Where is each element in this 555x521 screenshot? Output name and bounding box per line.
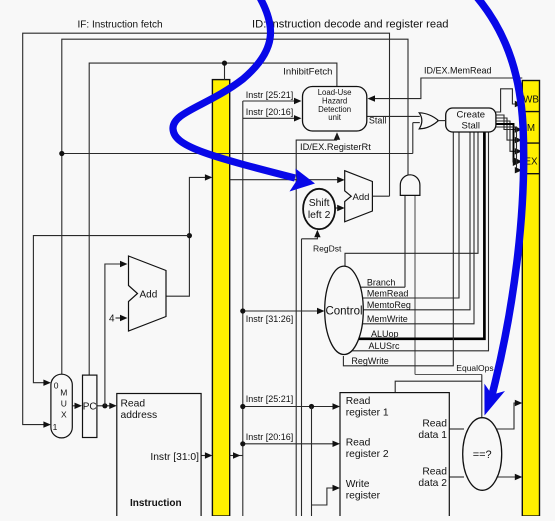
arrowhead Read address [109,403,117,409]
wire branch Add output [372,195,389,197]
svg-text:data 1: data 1 [418,430,447,441]
wire Branch [344,286,405,288]
arrowhead up into Shift left 2 [314,230,320,238]
svg-text:ID/EX.MemRead: ID/EX.MemRead [424,66,492,76]
wire Instr[20:16] to hazard [243,117,296,119]
svg-text:PC: PC [83,402,97,413]
arrowhead EX3 [515,167,523,173]
wire MemtoReg [344,132,470,310]
wire ID/EX.MemRead [372,78,522,99]
arrowhead EX1 [515,148,523,154]
wire Stall [367,115,420,117]
junction RegisterRt on PCSrc vertical [59,151,64,156]
wire PC+4 to MUX 0 [33,236,189,383]
arrowhead ==? out top [515,400,523,406]
svg-text:ALUSrc: ALUSrc [369,341,401,351]
svg-text:Instr [25:21]: Instr [25:21] [246,90,294,100]
svg-text:X: X [61,410,67,420]
svg-text:4: 4 [109,314,115,325]
svg-text:Read: Read [422,419,447,430]
MUX [51,374,72,438]
svg-text:MemtoReg: MemtoReg [367,300,411,310]
svg-text:==?: ==? [473,449,492,461]
junction PC+4 branch [187,233,192,238]
svg-text:U: U [61,399,67,409]
junction PC output [102,403,107,408]
svg-text:unit: unit [328,113,341,122]
arrowhead WB [515,101,523,107]
svg-text:data 2: data 2 [418,478,447,489]
wire shift to Add [335,207,339,209]
arrowhead Instr25-21 hazard [294,98,302,104]
svg-text:Instr [20:16]: Instr [20:16] [246,107,294,117]
svg-text:RegDst: RegDst [313,243,342,253]
comparator ==? [463,418,502,491]
arrowhead Read register 1 [333,403,341,409]
wire PC out to Read address [97,405,111,407]
svg-text:register 1: register 1 [346,408,389,419]
wire stall bundle 6 [496,127,517,170]
svg-text:Instr [25:21]: Instr [25:21] [246,394,294,404]
svg-text:Instr [31:0]: Instr [31:0] [150,452,199,463]
svg-text:RegWrite: RegWrite [351,356,388,366]
wire PCSrc feedback (AND gate output to MUX select) [62,39,408,374]
svg-text:Stall: Stall [369,116,387,126]
wire MemRead [344,132,459,298]
svg-text:Instruction: Instruction [130,498,182,509]
wire branch-target feedback [23,33,390,424]
wire AND left input (Branch) [404,196,406,288]
arrowhead next-PC into IF/ID [205,174,213,180]
ID/EX pipeline register [522,81,539,517]
arrowhead Instr bus [233,452,241,458]
svg-text:address: address [121,410,158,421]
junction Instr25-21 [240,404,245,409]
svg-text:Read: Read [346,438,371,449]
svg-text:Add: Add [353,192,370,203]
wire 4 into Add [116,317,122,319]
svg-text:left 2: left 2 [308,210,331,221]
arrowhead ==? out bottom [515,474,523,480]
arrowhead Instr31:0 into IF/ID [205,452,213,458]
svg-text:register 2: register 2 [346,449,389,460]
wire riser to OR [412,123,414,154]
svg-text:ID/EX.RegisterRt: ID/EX.RegisterRt [300,142,371,152]
wire bus vertical c [311,407,313,517]
arrowhead 4 input [120,315,128,321]
wire MUX to PC [72,405,76,407]
PC register [83,375,97,437]
svg-text:0: 0 [54,381,59,391]
wire stall bundle 3 [496,118,517,140]
svg-text:1: 1 [53,422,58,432]
svg-text:Stall: Stall [462,121,480,132]
wire InhibitFetch drop to IF/ID [224,63,226,80]
wire hazard bottom input [296,140,337,516]
arrowhead write register [333,485,341,491]
svg-text:Add: Add [140,290,158,301]
wire OR lower input riser [413,122,420,124]
Shift left 2 [303,189,335,229]
svg-text:Read: Read [422,467,447,478]
svg-text:Control: Control [325,306,362,318]
svg-text:Instr [20:16]: Instr [20:16] [246,432,294,442]
wire bus vertical b [301,239,303,516]
wire ==? top riser [481,375,483,419]
wire stall bundle 2 [496,115,517,130]
wire stall bundle 4 [496,121,517,151]
junction Instr20-16 [240,441,245,446]
AND gate [400,175,420,196]
wire RegWrite [343,132,453,366]
arrowhead into Control [317,308,325,314]
svg-text:Create: Create [457,110,486,121]
wire PC value to branch Add [230,179,339,181]
wire ALUSrc [344,132,489,351]
adder Add (PC+4) [129,256,167,331]
wire PC+4 riser [105,264,121,406]
svg-text:EqualOps: EqualOps [456,363,493,373]
wire stall bundle 5 thick [496,124,515,162]
svg-text:MemWrite: MemWrite [367,314,408,324]
junction Instr31-26 [240,308,245,313]
wire Add out loop [166,177,206,296]
junction Instr25-21 b [309,404,314,409]
wire Instr riser [242,101,244,516]
svg-text:InhibitFetch: InhibitFetch [283,66,332,77]
svg-text:IF: Instruction fetch: IF: Instruction fetch [78,20,163,31]
svg-text:Branch: Branch [367,277,396,287]
Control unit [325,266,364,354]
wire EqualOps to reg-file [395,381,482,392]
arrowhead Instr20-16 hazard [294,115,302,121]
svg-text:Read: Read [346,396,371,407]
wire into Shift left 2 [302,231,318,239]
wire Equal to AND [415,374,482,376]
wire OR to CreateStall [437,120,446,122]
svg-text:Instr [31:26]: Instr [31:26] [246,314,294,324]
svg-text:M: M [60,388,67,398]
wire ==? out bottom [496,476,517,478]
wire read data 2 to ==? [449,476,464,478]
IF/ID pipeline register [212,80,229,516]
arrowhead EX2 thick [513,157,523,166]
svg-text:ALUop: ALUop [371,329,399,339]
wire hazard arrow stub [336,134,338,140]
wire read data 1 to ==? [449,428,464,430]
wire Instr[31:0] out of IF/ID [230,455,243,457]
OR gate [419,113,438,129]
wire AND right input (Equal) [414,196,416,375]
arrowhead branch Add top [337,177,345,183]
adder Add (branch target) [345,171,373,222]
svg-text:register: register [346,491,381,502]
hazard detection unit U1 [303,87,367,132]
svg-text:WB: WB [523,95,539,106]
junction InhibitFetch/IF-ID [222,61,227,66]
wire InhibitFetch [89,63,337,375]
arrowhead Read register 2 [333,441,341,447]
wire Instr[20:16] to Read register 2 [243,443,335,445]
wire stall bundle 1 [496,89,517,112]
Registers box [340,393,449,521]
wire MemWrite [344,132,474,324]
arrowhead into hazard unit right [368,95,376,101]
arrowhead into MUX input 1 [43,421,51,427]
svg-text:M: M [527,123,535,134]
wire Instr[31:0] into IF/ID [201,455,207,457]
arrowhead up into hazard unit bottom [334,132,340,140]
svg-text:MemRead: MemRead [367,288,409,298]
wire Instr[31:26] to Control [243,310,319,312]
wire ALUop thick [344,132,484,339]
blue curve arrow to Shift left 2 [173,0,315,192]
arrowhead M2 [515,137,523,143]
wire RegDst [345,132,478,267]
wire ==? out top [496,403,517,429]
arrowhead Add top input [120,261,128,267]
svg-text:Shift: Shift [309,198,330,209]
arrowhead MUX input 0 [43,380,51,386]
wire ID/EX.RegisterRt [62,153,413,155]
Create Stall box [446,108,496,132]
arrowhead into PC [75,403,83,409]
svg-text:Read: Read [121,399,146,410]
Instruction memory box [117,394,201,521]
svg-text:ID: Instruction decode and reg: ID: Instruction decode and register read [252,19,449,31]
blue curve arrow to comparator [476,0,524,416]
wire write register [312,488,335,505]
arrowhead M1 [515,126,523,132]
arrowhead branch Add bottom [337,205,345,211]
svg-text:Write: Write [346,479,370,490]
wire Instr[25:21] to hazard [243,100,296,102]
wire Instr[25:21] to Read register 1 [243,406,335,408]
